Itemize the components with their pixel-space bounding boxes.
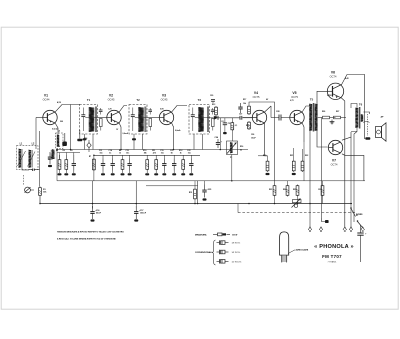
wire small rail left [57,152,80,154]
wire T2 bottom lead [133,134,135,150]
wire T5 secondary to V7 base [317,131,328,148]
transistor V1 (OC44) [43,94,58,125]
resistor R24 [286,185,289,197]
svg-text:0,1: 0,1 [235,125,238,127]
wire [297,197,299,204]
wire [73,171,75,174]
speaker AP [376,116,387,142]
wire [65,155,67,159]
svg-text:1/2 W 10%: 1/2 W 10% [232,261,242,263]
junction [56,149,58,151]
junction [350,203,352,205]
wire [65,171,67,174]
trimmer capacitor C3 [25,187,35,193]
wire to volume pot [231,131,233,141]
svg-text:T1: T1 [87,98,91,102]
wire [73,153,75,159]
svg-text:1/8 W 5%: 1/8 W 5% [232,243,241,245]
svg-text:T3: T3 [198,98,202,102]
svg-text:TENSIONI MISURATE A RIPOSO RIS: TENSIONI MISURATE A RIPOSO RISPETTO TELA… [57,230,124,233]
svg-text:OC75: OC75 [291,95,298,99]
oscillator coil L3 dashed box [56,133,64,149]
svg-text:R16: R16 [240,146,243,148]
wire [302,149,304,160]
resistor R28 [321,185,324,197]
wire V3 emitter [172,123,174,149]
svg-text:200: 200 [60,121,63,123]
svg-text:D1: D1 [222,121,224,123]
resistor R8 [121,159,124,171]
capacitor C20 top [211,100,215,104]
transformer T6 (output) [355,103,363,129]
wire [56,150,58,181]
ground pushpull [330,120,335,124]
svg-text:1/8 W: 1/8 W [232,234,237,236]
wire [59,171,61,174]
wire [102,155,104,159]
resistor R3 [65,159,68,171]
resistor R15b [194,188,197,200]
capacitor C17 [134,206,141,219]
wire stage return [146,185,198,187]
wire [146,155,148,159]
coil L3 [57,135,59,147]
wire V7 collector [342,132,351,140]
svg-text:4,7k: 4,7k [153,152,157,155]
transistor V4 (OC75) [252,91,266,125]
capacitor C22b [238,103,242,113]
junction [194,203,196,205]
wire [204,181,206,185]
wire [59,155,61,159]
wire [190,155,192,159]
svg-text:10n: 10n [188,153,191,155]
tuning gang dashed box [17,146,39,170]
junction C19 [162,173,166,175]
wire [122,171,124,174]
svg-text:R23: R23 [269,189,272,191]
wire [219,118,221,150]
junction C22 [189,173,193,175]
svg-text:OC45: OC45 [108,98,115,102]
resistor R10 [146,159,149,171]
wire [190,171,192,174]
coil L1 [19,149,23,168]
terminal [349,227,353,232]
svg-text:50mF: 50mF [96,213,102,215]
svg-text:4,5V: 4,5V [57,101,62,104]
resistor R23 [273,185,276,197]
wire [197,181,199,204]
svg-text:OC45: OC45 [161,98,168,102]
svg-text:V2: V2 [109,94,113,98]
wire supply sub-rail [94,154,200,156]
svg-text:R25: R25 [293,189,296,191]
capacitor C23 [223,118,227,134]
wire [112,155,114,159]
transformer T3 (IF) [189,98,215,134]
jack hook contact [322,218,329,223]
wire [129,155,131,159]
junction C21 [172,173,176,175]
svg-text:R26: R26 [322,111,325,113]
wire V6 base [317,91,327,104]
junction R21 [292,173,296,175]
jack contact [365,137,370,139]
wire [194,200,196,204]
terminal [319,227,323,232]
svg-text:C28: C28 [276,111,279,113]
junction [39,203,41,205]
svg-text:OC74: OC74 [330,75,337,79]
wire V1 collector [55,105,80,112]
svg-text:C25: C25 [208,189,211,191]
svg-text:R3: R3 [63,150,65,152]
transistor V3 (OC45) [159,94,173,125]
wire V4 collector loop [249,102,275,185]
legend symbol row 1 [217,240,241,244]
svg-text:V5: V5 [292,91,296,95]
svg-text:R18: R18 [246,125,249,127]
wire [194,181,196,188]
coil L2 [29,150,33,168]
wire [321,118,323,219]
svg-text:R27: R27 [336,111,339,113]
wire T3 secondary out [210,117,214,119]
terminal [308,227,312,232]
resistor R14 [231,122,234,132]
svg-text:P1: P1 [230,157,232,159]
wire secondary hook [363,121,369,122]
wire [182,155,184,159]
svg-text:« PHONOLA »: « PHONOLA » [314,244,354,250]
wire T6 secondary to speaker [363,112,369,114]
wire dashed battery line [238,212,355,214]
junction C6 [72,173,76,175]
svg-text:C18: C18 [84,138,87,140]
wire [146,171,148,174]
variable capacitor C1 arrow [18,151,26,166]
junction R12 [181,173,185,175]
junction C25 [203,198,207,200]
capacitor C5 [48,152,52,164]
wire T2 bottom lead [142,134,144,150]
resistor R22 [301,160,304,172]
junction [136,203,138,205]
wire [102,171,104,174]
wire V5 emitter [302,123,304,142]
svg-text:INTERR.: INTERR. [356,214,363,216]
svg-text:100mF: 100mF [140,213,147,215]
wire [163,155,165,159]
capacitor C27 series [240,116,253,120]
svg-text:1k: 1k [180,153,182,155]
wire AGC rail [57,149,248,151]
earpiece (auricolare) [280,232,295,263]
wire [122,155,124,159]
svg-text:AP: AP [380,116,384,119]
svg-text:C20: C20 [210,95,213,97]
junction R19 [266,173,270,175]
junction [92,203,94,205]
wire [173,171,175,174]
junction C15 [128,173,132,175]
svg-text:T5: T5 [310,98,314,102]
svg-text:FM T707: FM T707 [322,254,342,259]
capacitor C5 pad [77,130,82,141]
capacitor C2 [29,169,40,172]
svg-text:C14: C14 [109,149,112,152]
legend symbol row 3 [217,259,242,263]
variable capacitor C2 arrow [28,152,36,167]
wire V5 emitter lower [303,142,305,181]
resistor R25 [296,185,299,197]
wire T6 primary bottom [351,128,357,132]
capacitor C14 [111,159,115,171]
earphone jack dashed line [366,114,368,136]
junction R8 [121,173,125,175]
transistor V5 (OC75) [290,91,304,125]
wire [59,153,61,159]
wire [243,117,253,119]
wire [309,131,311,228]
transistor V6 (OC74) [327,71,343,100]
svg-text:L4: L4 [58,145,60,148]
wire V2 collector [119,106,127,112]
transformer T1 (IF) [80,98,103,134]
wire [322,181,324,185]
svg-text:T6: T6 [359,103,363,107]
junction blob L-net [62,133,67,146]
junction C5 [48,165,52,167]
junction R10 [145,173,149,175]
transformer T2 (IF) [129,98,152,134]
junction [297,203,299,205]
wire [287,181,289,185]
junction C17 [134,219,138,221]
svg-text:0,15V: 0,15V [327,95,332,97]
capacitor C30 battery [357,225,367,262]
switch S1b [357,220,363,227]
junction C16 [91,219,95,221]
svg-text:R24: R24 [283,188,286,191]
wire [231,118,233,122]
svg-text:1/4 W 5%: 1/4 W 5% [232,252,241,254]
wire T2 to V3 base [147,117,160,119]
junction R3 [64,173,68,175]
junction [173,149,175,151]
transistor V2 (OC45) [107,94,121,125]
junction [231,180,233,182]
svg-text:0,6mA: 0,6mA [123,132,129,135]
wire detector line [218,117,240,119]
junction [220,149,222,151]
dashed trimmer link [23,175,25,185]
resistor R1 [39,187,42,197]
junction T1 lead [83,138,87,140]
resistor R11 [155,159,158,171]
wire [92,181,94,209]
wire V6 emitter [342,98,345,227]
wire V4 emitter [265,123,268,156]
wire pot to AF [231,155,233,181]
junction C14 [111,173,115,175]
legend symbol row 2 [217,250,241,254]
svg-text:V7: V7 [332,159,336,163]
svg-text:A REGOLAZ. VOLUME MINIMA RISPE: A REGOLAZ. VOLUME MINIMA RISPETTO KΩ 20 … [57,237,116,240]
resistor R21 [292,160,295,172]
diode D1 detector [214,116,218,120]
svg-text:R13: R13 [212,104,215,106]
wire T6 primary top [351,104,357,109]
capacitor C21 [172,159,176,171]
svg-text:39k: 39k [144,153,147,155]
svg-text:C29: C29 [318,189,321,191]
wire T6 return drop [354,132,357,223]
wire [39,131,41,187]
svg-text:MINIATURA: MINIATURA [195,233,207,236]
wire V6 collector [342,75,365,140]
wire antenna to V1 base [36,117,43,119]
wire [293,148,295,160]
resistor R7 [93,158,96,171]
switch S1 [350,207,355,216]
svg-text:OC74: OC74 [331,163,338,167]
svg-text:V1: V1 [44,94,48,98]
wire [65,153,67,159]
transistor V7 (OC74) [328,140,342,166]
potentiometer volume control [227,141,238,155]
resistor R18 [248,121,251,130]
junction [93,155,95,157]
center tap bias resistors R26 R27 [318,116,346,119]
svg-text:5k: 5k [240,150,242,152]
wire V7 emitter [342,154,364,181]
svg-text:50: 50 [171,153,173,155]
terminal [361,227,365,232]
wire supply drop [350,137,352,227]
capacitor C13 [101,159,105,171]
wire dash stub [237,204,239,213]
svg-text:1k: 1k [119,153,121,155]
resistor R2 [58,159,61,171]
resistor R13 [215,106,218,116]
svg-text:V4: V4 [254,91,258,95]
svg-text:AURICOLARE: AURICOLARE [296,249,309,252]
junction R2 [58,173,62,175]
wire T1 bottom lead [92,134,94,150]
junction R11 [154,173,158,175]
wire [22,168,29,171]
svg-text:T2: T2 [136,98,140,102]
svg-text:R21: R21 [290,155,293,157]
wire [155,171,157,174]
wire [155,155,157,159]
svg-text:C26: C26 [251,134,254,136]
junction [274,203,276,205]
wire V2 emitter [119,123,121,149]
svg-text:OC75: OC75 [253,95,260,99]
wire [73,155,75,159]
svg-text:R19: R19 [263,155,266,157]
transformer T5 (driver) [309,98,317,132]
svg-text:7 TRANS.: 7 TRANS. [328,260,337,263]
svg-text:0,6mA: 0,6mA [175,129,181,132]
junction [197,203,199,205]
capacitor C24 [216,139,223,148]
wire T1 to V2 base [98,117,108,119]
junction [120,149,122,151]
wire [129,171,131,174]
wire [163,171,165,174]
svg-text:OC44: OC44 [43,98,50,102]
resistor R17 [248,105,251,115]
svg-text:10n: 10n [161,153,164,155]
wire bottom supply bus [40,203,352,205]
wire V1 emitter [55,123,58,135]
wire V5 collector to T5 [302,105,309,112]
svg-text:V3: V3 [162,94,166,98]
wire [173,155,175,159]
svg-text:R22: R22 [305,155,308,157]
svg-text:C27: C27 [239,114,242,116]
resistor R12 [182,159,185,171]
svg-text:10k: 10k [243,103,246,105]
wire [274,197,276,204]
junction C13 [101,173,105,175]
svg-text:R15: R15 [189,192,192,194]
wire [35,118,37,150]
potentiometer with switch P1 [292,199,302,208]
legend brace [212,240,216,265]
svg-text:5n: 5n [109,153,111,155]
wire T3 bottom lead [193,134,195,150]
wire mid bus [57,180,365,182]
junction [309,203,311,205]
wire T3 bottom lead [202,134,204,150]
coil L4 [52,150,54,160]
svg-text:R7: R7 [89,156,91,158]
capacitor C16 [90,206,97,219]
wire [112,171,114,174]
junction T2 lead [132,138,136,140]
wire [70,105,72,150]
wire [182,171,184,174]
svg-text:V6: V6 [331,71,335,75]
svg-text:10n: 10n [126,153,129,155]
svg-text:R17: R17 [243,99,246,101]
wire [322,197,324,204]
capacitor C19 [162,159,166,171]
capacitor C22 [189,159,193,171]
wire [258,156,268,160]
svg-text:C5: C5 [48,159,50,161]
wire T1 bottom lead [84,134,86,150]
legend resistor symbol [213,233,230,236]
terminal [343,227,347,232]
wire [39,197,41,204]
capacitor C25 [202,185,209,198]
resistor R19 [266,160,269,172]
svg-text:10n: 10n [100,153,103,155]
capacitor C15 [127,159,131,171]
capacitor C6 [72,159,76,171]
junction [70,149,72,151]
capacitor C28 coupling [265,106,291,121]
wire V3 collector [172,106,187,112]
svg-text:CONVENZIONALI: CONVENZIONALI [195,251,213,254]
wire [93,155,95,181]
